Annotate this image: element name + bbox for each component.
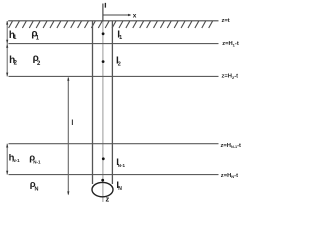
svg-text:z=HN-1-t: z=HN-1-t — [221, 143, 242, 149]
svg-text:z=H1-t: z=H1-t — [222, 41, 239, 47]
current source dot layer 2 — [102, 60, 105, 63]
interface line z=H2-t — [9, 75, 219, 77]
interface line z=HN-t — [9, 174, 219, 176]
svg-text:z=HN-t: z=HN-t — [221, 173, 238, 179]
z axis line (vertical center line through rod) — [102, 4, 104, 21]
current source dot layer N — [101, 179, 104, 182]
rod right wall — [111, 21, 113, 184]
svg-text:N-1: N-1 — [118, 163, 126, 168]
svg-text:x: x — [133, 12, 137, 19]
current source dot layer 1 — [102, 32, 105, 35]
svg-text:z: z — [106, 195, 110, 204]
hN-1 dimension line — [6, 144, 8, 175]
svg-text:l: l — [71, 120, 73, 127]
svg-text:N-1: N-1 — [33, 159, 41, 164]
svg-text:N: N — [35, 187, 39, 193]
ground surface line — [8, 20, 218, 22]
svg-text:I: I — [105, 3, 107, 10]
svg-text:N-1: N-1 — [12, 158, 20, 163]
l dimension line — [67, 78, 69, 195]
ground hatching — [9, 21, 213, 28]
h1-h2 dimension line — [6, 21, 8, 76]
svg-text:z=H2-t: z=H2-t — [222, 74, 239, 80]
current source dot layer N-1 — [102, 157, 105, 160]
svg-text:N: N — [118, 186, 122, 192]
rod left wall — [92, 21, 94, 184]
svg-text:1: 1 — [119, 35, 122, 41]
interface line z=HN-1-t — [9, 143, 219, 145]
interface line z=H1-t — [9, 43, 219, 45]
svg-text:z=t: z=t — [222, 18, 230, 24]
rod bottom ellipse — [92, 182, 113, 196]
x axis arrow — [103, 14, 129, 16]
svg-text:2: 2 — [118, 61, 121, 67]
